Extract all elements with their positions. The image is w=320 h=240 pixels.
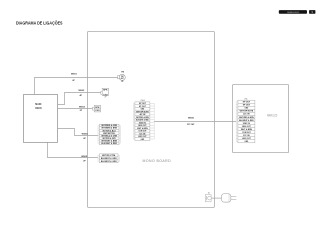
svg-text:CN601: CN601 xyxy=(140,100,145,102)
svg-text:BLK/WHT & GRN: BLK/WHT & GRN xyxy=(101,158,117,160)
svg-text:GND: GND xyxy=(245,141,249,143)
svg-text:GND: GND xyxy=(141,109,145,111)
svg-text:DIAGRAMA DE LIGAÇÕES: DIAGRAMA DE LIGAÇÕES xyxy=(287,11,299,14)
svg-text:MAIN LCD: MAIN LCD xyxy=(267,113,277,117)
svg-text:CN3: CN3 xyxy=(95,110,99,112)
svg-text:W603: W603 xyxy=(79,107,86,109)
svg-text:DC IN: DC IN xyxy=(243,135,250,137)
svg-text:GND: GND xyxy=(245,108,249,110)
svg-text:2P: 2P xyxy=(105,96,107,98)
svg-text:DECK: DECK xyxy=(35,106,42,110)
svg-text:BLK/WHT & RED: BLK/WHT & RED xyxy=(101,143,117,145)
svg-text:SPK: SPK xyxy=(95,107,100,109)
svg-text:CN2: CN2 xyxy=(103,95,107,97)
svg-text:COM OUT: COM OUT xyxy=(242,132,251,134)
svg-text:BLK/WHT & RED: BLK/WHT & RED xyxy=(136,120,149,122)
svg-text:GND: GND xyxy=(141,139,145,141)
svg-text:VDD 5V: VDD 5V xyxy=(139,122,147,124)
svg-text:WHT/RED & BRN: WHT/RED & BRN xyxy=(136,117,149,119)
svg-text:BLK/WHT & RED: BLK/WHT & RED xyxy=(239,120,254,122)
svg-text:SP OUT: SP OUT xyxy=(243,105,251,107)
svg-text:VDD 5V: VDD 5V xyxy=(243,123,251,125)
svg-text:HP OUT: HP OUT xyxy=(243,102,251,104)
svg-text:DC IN: DC IN xyxy=(139,133,146,135)
svg-text:COM OUT: COM OUT xyxy=(138,131,147,133)
svg-text:SEG OUT: SEG OUT xyxy=(138,125,147,127)
svg-text:WHT & BRN: WHT & BRN xyxy=(137,128,148,130)
svg-text:WHT/SP MUTE: WHT/SP MUTE xyxy=(136,111,149,113)
svg-text:W606: W606 xyxy=(188,118,195,120)
svg-text:WHT/RED & BRN: WHT/RED & BRN xyxy=(239,117,254,119)
svg-text:WHT/SP MUTE: WHT/SP MUTE xyxy=(240,111,254,113)
svg-text:SP OUT: SP OUT xyxy=(139,106,147,108)
svg-text:LED OUT: LED OUT xyxy=(138,136,147,138)
svg-text:HP OUT: HP OUT xyxy=(139,103,147,105)
svg-text:BLK/WHT & GRN: BLK/WHT & GRN xyxy=(101,161,117,163)
svg-text:FFC 14P: FFC 14P xyxy=(187,123,195,126)
svg-text:AC IN: AC IN xyxy=(139,113,146,116)
svg-text:AC IN: AC IN xyxy=(243,113,250,116)
svg-text:W601: W601 xyxy=(71,74,78,76)
svg-text:SPK: SPK xyxy=(103,90,108,92)
svg-text:MOTOR & TRA: MOTOR & TRA xyxy=(102,154,116,157)
svg-text:WHT & BRN: WHT & BRN xyxy=(241,129,253,131)
svg-text:MONO BOARD: MONO BOARD xyxy=(143,158,172,163)
svg-text:SEG OUT: SEG OUT xyxy=(242,126,251,128)
svg-text:W604: W604 xyxy=(82,132,89,135)
svg-text:W605: W605 xyxy=(81,156,88,158)
svg-text:MAIN: MAIN xyxy=(35,102,41,106)
svg-text:W602: W602 xyxy=(78,90,85,92)
svg-text:LED OUT: LED OUT xyxy=(242,138,251,140)
svg-text:DIAGRAMA DE LIGAÇÕES: DIAGRAMA DE LIGAÇÕES xyxy=(16,21,63,26)
